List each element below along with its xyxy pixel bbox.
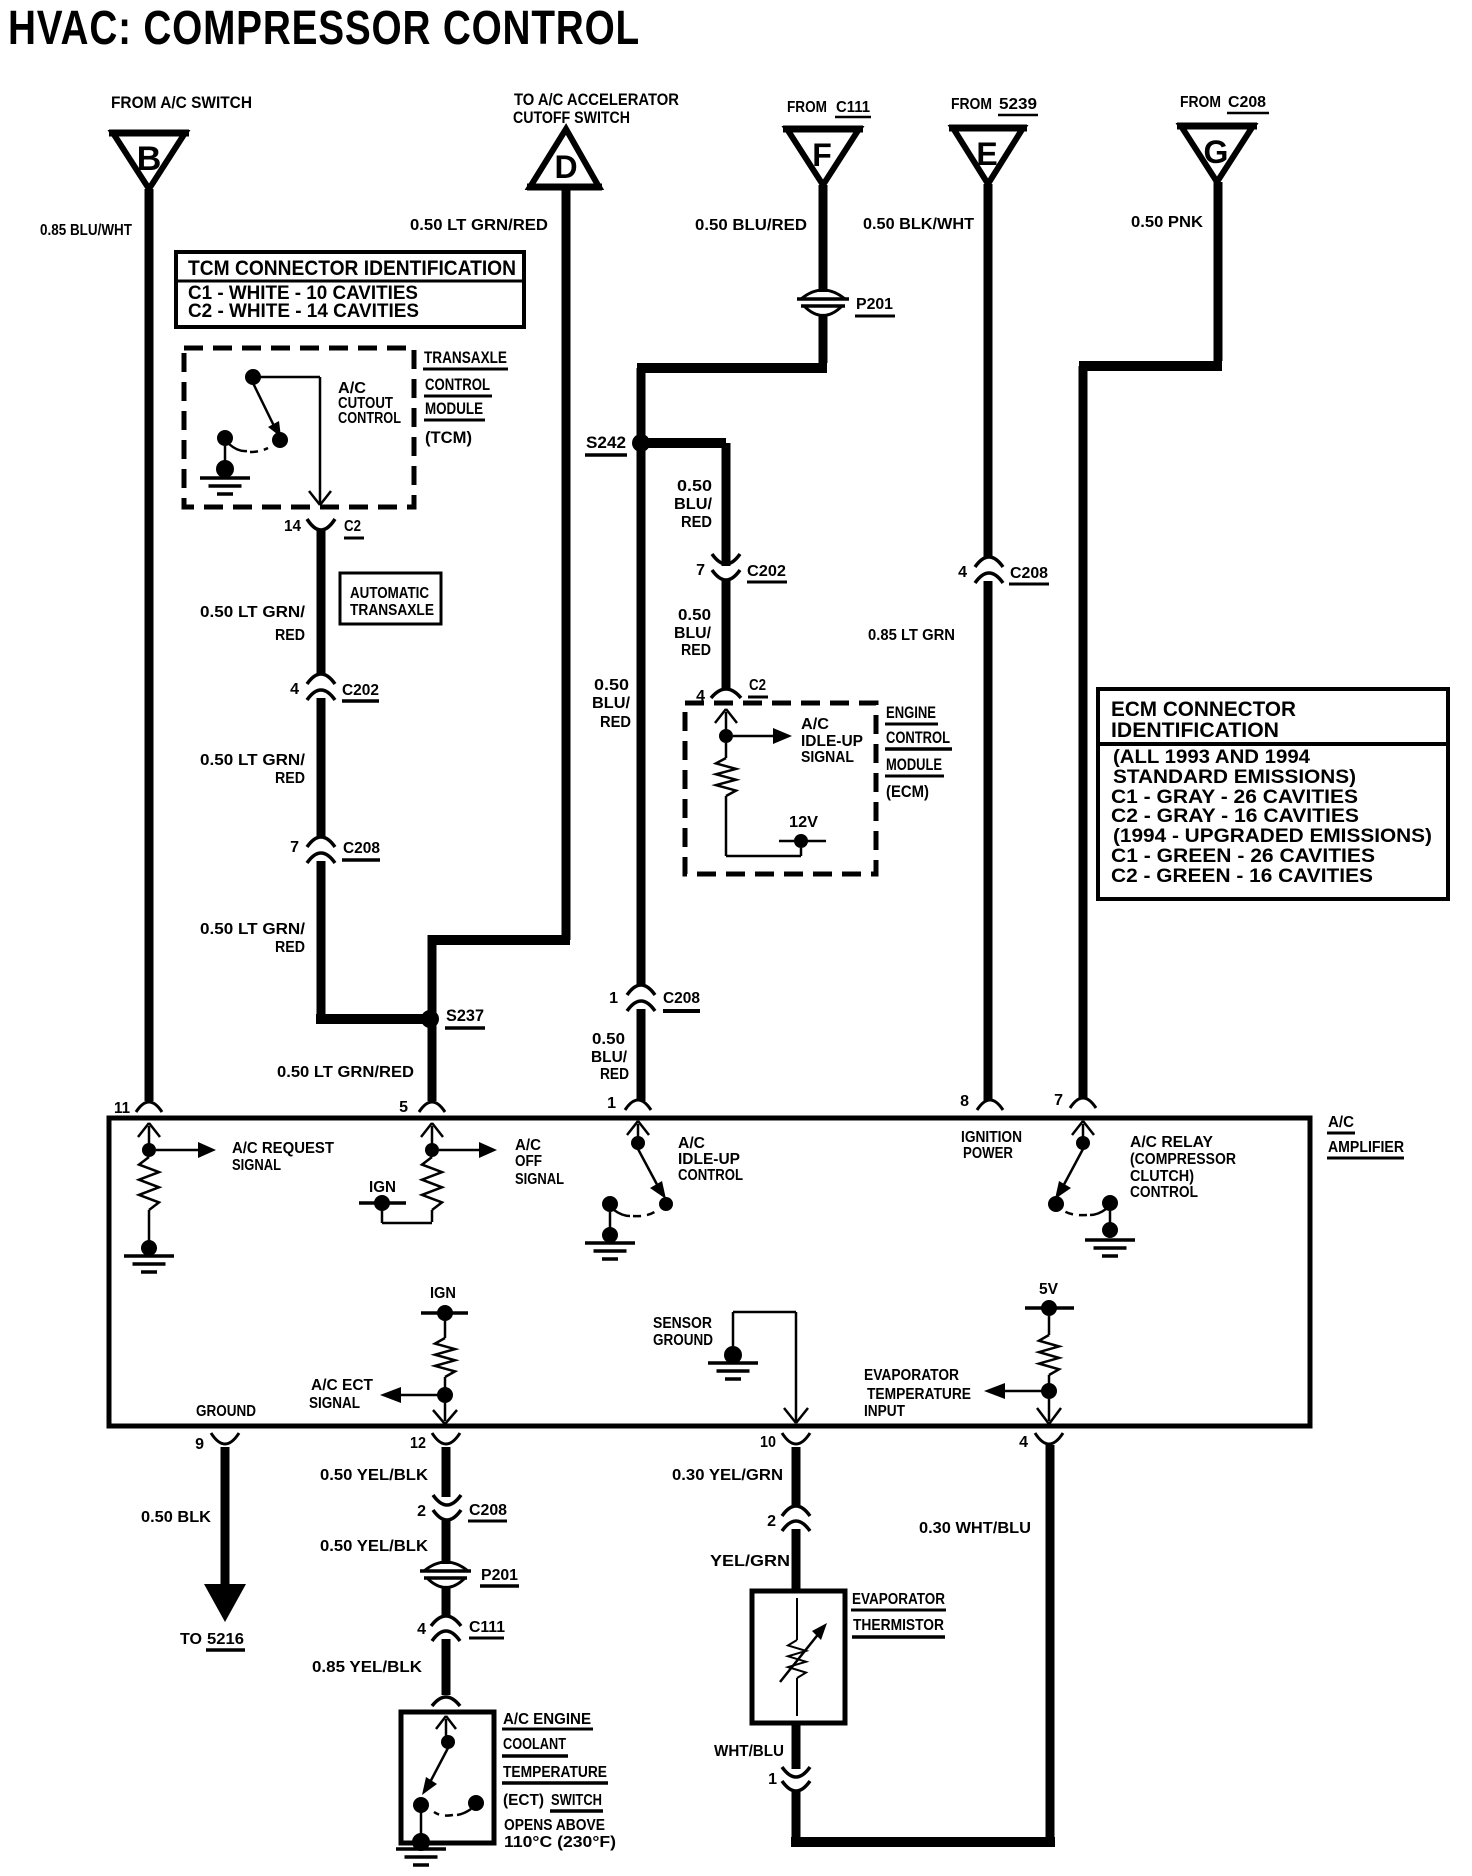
svg-text:A/C: A/C (801, 716, 829, 733)
svg-text:FROM: FROM (787, 99, 827, 116)
svg-text:(COMPRESSOR: (COMPRESSOR (1130, 1151, 1236, 1168)
svg-text:(1994 - UPGRADED EMISSIONS): (1994 - UPGRADED EMISSIONS) (1113, 826, 1432, 847)
pin 11 resistor to ground (139, 1157, 159, 1256)
wire F upper segment (0.50 BLU/RED) (695, 185, 823, 292)
svg-text:GROUND: GROUND (653, 1332, 713, 1349)
A/C off signal arrow (439, 1137, 564, 1188)
label TRANSAXLE CONTROL MODULE (TCM) (423, 348, 508, 447)
ECT switch blade (413, 1748, 448, 1813)
in-line connector C208 pin 1 (center column) (609, 985, 700, 1011)
svg-text:FROM: FROM (951, 96, 992, 113)
svg-text:(ECM): (ECM) (886, 782, 929, 801)
amplifier pin 1 (607, 1095, 651, 1112)
svg-text:OFF: OFF (515, 1153, 542, 1170)
label A/C RELAY (COMPRESSOR CLUTCH) CONTROL (1130, 1134, 1236, 1201)
sensor ground dot (724, 1346, 742, 1364)
svg-text:A/C REQUEST: A/C REQUEST (232, 1140, 334, 1157)
svg-text:C208: C208 (343, 840, 380, 857)
svg-text:A/C: A/C (515, 1137, 541, 1154)
svg-text:TO: TO (180, 1631, 202, 1648)
TCM A/C cutout control dashed box (184, 348, 414, 507)
svg-text:0.50 LT GRN/RED: 0.50 LT GRN/RED (410, 217, 548, 234)
A/C idle-up signal arrow (733, 716, 863, 766)
wire P201 to C111 (0.85 YEL/BLK) (442, 1586, 451, 1616)
svg-text:SWITCH: SWITCH (551, 1792, 602, 1809)
label A/C ENGINE COOLANT TEMPERATURE (ECT) SWITCH (502, 1711, 616, 1851)
wire pin 10 to thermistor connector (0.30 YEL/GRN) (672, 1447, 796, 1506)
pin 11 ground symbol (124, 1256, 174, 1272)
ECM 12V terminal (726, 814, 826, 856)
in-line connector C202 pin 4 (left column) (290, 674, 379, 701)
wire C208 pin1 to amplifier pin 1 (0.50 BLU/RED) (591, 1009, 641, 1101)
svg-text:CONTROL: CONTROL (338, 410, 401, 427)
label A/C AMPLIFIER (1327, 1114, 1404, 1158)
svg-text:ECM CONNECTOR: ECM CONNECTOR (1111, 698, 1296, 721)
svg-text:4: 4 (958, 564, 967, 581)
svg-text:ENGINE: ENGINE (886, 703, 936, 722)
svg-text:RED: RED (275, 770, 305, 787)
wire G to amplifier pin 7 (0.50 PNK) with jog (1079, 182, 1222, 1098)
wire thermistor to pin 1 connector (WHT/BLU) (714, 1721, 796, 1769)
svg-text:AMPLIFIER: AMPLIFIER (1328, 1139, 1404, 1156)
ECT circuit resistor (435, 1338, 455, 1388)
label A/C IDLE-UP CONTROL (678, 1135, 743, 1184)
wire C208 to S237 (0.50 LT GRN/RED) (200, 861, 425, 1019)
svg-text:TRANSAXLE: TRANSAXLE (350, 602, 434, 619)
svg-text:4: 4 (1019, 1434, 1028, 1451)
svg-text:9: 9 (195, 1436, 204, 1453)
svg-text:2: 2 (417, 1503, 426, 1520)
pin 5 entry arrow (421, 1123, 443, 1144)
svg-text:1: 1 (768, 1771, 777, 1788)
svg-text:IGNITION: IGNITION (961, 1129, 1022, 1146)
svg-text:5V: 5V (1039, 1281, 1058, 1298)
svg-text:A/C ENGINE: A/C ENGINE (503, 1711, 591, 1728)
svg-text:C202: C202 (342, 682, 379, 699)
wire pin 12 to C208 (0.50 YEL/BLK) (320, 1447, 446, 1497)
svg-text:TO A/C ACCELERATOR: TO A/C ACCELERATOR (514, 90, 679, 109)
svg-text:C2 - GREEN - 16 CAVITIES: C2 - GREEN - 16 CAVITIES (1111, 866, 1373, 887)
svg-text:(ALL 1993 AND 1994: (ALL 1993 AND 1994 (1113, 747, 1310, 768)
svg-text:CONTROL: CONTROL (425, 375, 490, 394)
in-line connector C111 pin 4 (bottom) (417, 1616, 505, 1641)
svg-text:TRANSAXLE: TRANSAXLE (424, 348, 507, 367)
label GROUND (pin 9) (196, 1403, 256, 1420)
pin 1 switch fixed contact (602, 1196, 656, 1216)
wire pin 9 ground (0.50 BLK) (141, 1447, 225, 1586)
svg-text:(TCM): (TCM) (425, 428, 472, 447)
pin 7 ground symbol (1085, 1240, 1135, 1256)
wire C2 pin14 to C202 (0.50 LT GRN/RED) (200, 530, 321, 675)
svg-text:B: B (137, 140, 162, 178)
amplifier pin 5 (399, 1099, 445, 1116)
svg-text:8: 8 (960, 1093, 969, 1110)
svg-text:0.50 PNK: 0.50 PNK (1131, 214, 1203, 231)
svg-text:12: 12 (410, 1435, 426, 1452)
amplifier pin 9 (195, 1433, 239, 1453)
off-page connector B (from A/C switch) (109, 93, 252, 189)
svg-text:0.85 BLU/WHT: 0.85 BLU/WHT (40, 222, 132, 239)
svg-text:BLU/: BLU/ (592, 695, 631, 712)
svg-text:IDENTIFICATION: IDENTIFICATION (1111, 719, 1279, 742)
svg-text:0.85 LT GRN: 0.85 LT GRN (868, 627, 955, 644)
wire S242 branch to ECM (0.50 BLU/RED) (637, 443, 726, 566)
TCM connector C2 pin 14 (284, 518, 364, 538)
svg-text:TCM CONNECTOR IDENTIFICATION: TCM CONNECTOR IDENTIFICATION (188, 257, 516, 280)
wire to evaporator thermistor (YEL/GRN) (710, 1529, 796, 1593)
wire B to amplifier pin 11 (0.85 BLU/WHT) (40, 189, 149, 1101)
amplifier pin 8 (960, 1093, 1003, 1110)
svg-text:CONTROL: CONTROL (886, 728, 950, 747)
svg-text:C2: C2 (344, 518, 361, 535)
svg-text:C208: C208 (469, 1502, 507, 1519)
svg-text:CONTROL: CONTROL (678, 1167, 743, 1184)
svg-text:RED: RED (275, 939, 305, 956)
svg-text:C202: C202 (747, 563, 786, 580)
svg-text:OPENS ABOVE: OPENS ABOVE (504, 1817, 605, 1834)
pin 1 switch blade (638, 1149, 673, 1211)
svg-text:7: 7 (1054, 1092, 1063, 1109)
wire E upper segment (0.50 BLK/WHT) (863, 184, 988, 557)
svg-text:0.50 LT GRN/: 0.50 LT GRN/ (200, 604, 306, 621)
off-page connector G (from C208) (1177, 94, 1269, 182)
amplifier pin 10 (760, 1433, 810, 1451)
svg-text:A/C ECT: A/C ECT (311, 1377, 373, 1394)
svg-text:C2 - WHITE - 14 CAVITIES: C2 - WHITE - 14 CAVITIES (188, 301, 419, 322)
svg-text:0.50 LT GRN/: 0.50 LT GRN/ (200, 752, 306, 769)
ECM idle-up node dot (719, 729, 733, 743)
svg-text:7: 7 (290, 839, 299, 856)
svg-text:A/C: A/C (678, 1135, 705, 1152)
svg-text:2: 2 (767, 1513, 776, 1530)
svg-text:RED: RED (681, 642, 711, 659)
ECT switch contact to box edge (412, 1812, 430, 1851)
svg-text:C208: C208 (663, 990, 700, 1007)
TCM switch pivot dot (245, 369, 261, 385)
svg-text:1: 1 (607, 1095, 616, 1112)
evaporator thermistor box (752, 1591, 845, 1723)
wire C202 to ECM C2 pin 4 (0.50 BLU/RED) (674, 580, 726, 688)
svg-text:P201: P201 (856, 296, 893, 313)
TCM switch fixed contact (217, 430, 268, 452)
svg-text:STANDARD EMISSIONS): STANDARD EMISSIONS) (1113, 767, 1356, 788)
evaporator circuit resistor (1039, 1335, 1059, 1384)
svg-text:S242: S242 (586, 433, 626, 452)
splice S242 (585, 433, 650, 455)
ECT signal node dot (437, 1387, 453, 1403)
svg-text:0.50: 0.50 (677, 478, 712, 495)
splice S237 (421, 1006, 485, 1028)
wire C111 to ECT switch (0.85 YEL/BLK) (312, 1639, 446, 1695)
svg-text:0.50 YEL/BLK: 0.50 YEL/BLK (320, 1467, 428, 1484)
svg-text:EVAPORATOR: EVAPORATOR (852, 1591, 945, 1608)
pin 5 node dot (425, 1143, 439, 1157)
svg-text:WHT/BLU: WHT/BLU (714, 1743, 784, 1760)
label IGNITION POWER (961, 1129, 1022, 1162)
svg-text:11: 11 (114, 1100, 130, 1117)
svg-text:4: 4 (417, 1621, 426, 1638)
svg-text:1: 1 (609, 990, 618, 1007)
off-page connector F (from C111) (783, 99, 871, 185)
svg-text:IGN: IGN (430, 1285, 456, 1302)
svg-text:SIGNAL: SIGNAL (801, 749, 854, 766)
svg-text:IDLE-UP: IDLE-UP (678, 1151, 740, 1168)
pin 1 entry arrow (627, 1121, 649, 1138)
svg-text:0.30 WHT/BLU: 0.30 WHT/BLU (919, 1520, 1031, 1537)
svg-text:C208: C208 (1010, 565, 1048, 582)
svg-text:S237: S237 (446, 1006, 484, 1025)
svg-text:P201: P201 (481, 1567, 518, 1584)
svg-text:IDLE-UP: IDLE-UP (801, 733, 863, 750)
sensor ground symbol (708, 1363, 758, 1379)
svg-text:INPUT: INPUT (864, 1403, 905, 1420)
label A/C CUTOUT CONTROL (338, 380, 401, 427)
svg-text:MODULE: MODULE (425, 399, 483, 418)
off-page connector D (to A/C accelerator cutoff switch) (513, 90, 679, 187)
pin 7 switch blade (1048, 1149, 1083, 1212)
ECT signal to pin 12 down arrow (433, 1403, 457, 1424)
svg-text:5216: 5216 (207, 1631, 244, 1648)
svg-text:RED: RED (681, 514, 712, 531)
svg-text:AUTOMATIC: AUTOMATIC (350, 585, 429, 602)
svg-text:BLU/: BLU/ (674, 625, 712, 642)
svg-text:CLUTCH): CLUTCH) (1130, 1168, 1194, 1185)
svg-text:D: D (554, 149, 577, 185)
amplifier pin 4 (1019, 1433, 1063, 1451)
pin 7 contact to ground (1102, 1211, 1118, 1238)
thermistor return wire to amplifier pin 4 (0.30 WHT/BLU) (791, 1445, 1055, 1847)
svg-text:5: 5 (399, 1099, 408, 1116)
in-line connector C208 pin 4 (E column) (958, 557, 1049, 584)
evaporator input node dot (1041, 1383, 1057, 1399)
svg-text:C208: C208 (1228, 94, 1266, 111)
svg-text:4: 4 (290, 681, 299, 698)
svg-text:SIGNAL: SIGNAL (515, 1171, 564, 1188)
pin 1 switch pivot dot (631, 1136, 645, 1150)
svg-text:C1 - GREEN - 26 CAVITIES: C1 - GREEN - 26 CAVITIES (1111, 846, 1375, 867)
A/C ECT signal arrow (309, 1377, 438, 1412)
svg-text:G: G (1204, 134, 1229, 170)
ECM pull-up resistor (716, 743, 736, 856)
grommet P201 (F column) (797, 290, 895, 316)
svg-text:RED: RED (600, 1066, 629, 1083)
pin 7 switch fixed contact (1064, 1195, 1118, 1215)
svg-text:C1 - GRAY - 26 CAVITIES: C1 - GRAY - 26 CAVITIES (1111, 787, 1358, 808)
svg-text:0.50: 0.50 (592, 1031, 625, 1048)
in-line connector C208 pin 7 (left column) (290, 837, 380, 863)
svg-text:C111: C111 (469, 1619, 505, 1636)
svg-text:0.50: 0.50 (678, 607, 711, 624)
svg-text:A/C RELAY: A/C RELAY (1130, 1134, 1213, 1151)
svg-text:0.50 BLK: 0.50 BLK (141, 1509, 211, 1526)
wire F lower segment to S242 (637, 314, 827, 443)
title HVAC: COMPRESSOR CONTROL (8, 2, 640, 55)
svg-text:SIGNAL: SIGNAL (309, 1395, 360, 1412)
evaporator input to pin 4 down arrow (1037, 1399, 1061, 1424)
ECT switch entry arrow (436, 1716, 456, 1736)
svg-text:0.85 YEL/BLK: 0.85 YEL/BLK (312, 1659, 422, 1676)
svg-text:YEL/GRN: YEL/GRN (710, 1553, 790, 1570)
svg-text:10: 10 (760, 1434, 776, 1451)
TCM ground symbol (200, 478, 250, 494)
IGN terminal (pin 5 circuit) (359, 1179, 432, 1223)
ECM pin 4 entry up-arrow (715, 709, 737, 730)
TCM switch blade with arrowhead (253, 383, 288, 448)
ECM connector identification box (1098, 689, 1448, 899)
amplifier pin 11 (114, 1100, 162, 1117)
svg-text:E: E (976, 136, 997, 172)
A/C ECT switch box (401, 1712, 494, 1843)
off-page connector E (from S239) (949, 96, 1038, 184)
svg-text:0.50 BLK/WHT: 0.50 BLK/WHT (863, 216, 974, 233)
in-line connector pin 1 (thermistor return) (768, 1767, 810, 1791)
svg-text:0.50 YEL/BLK: 0.50 YEL/BLK (320, 1538, 428, 1555)
ECM dashed box (685, 703, 876, 874)
svg-text:TEMPERATURE: TEMPERATURE (867, 1386, 971, 1403)
evaporator temperature input arrow (864, 1367, 1042, 1420)
svg-text:HVAC: COMPRESSOR CONTROL: HVAC: COMPRESSOR CONTROL (8, 2, 640, 55)
ECT switch pivot dot (441, 1735, 455, 1749)
svg-text:7: 7 (696, 562, 705, 579)
svg-text:C111: C111 (836, 99, 870, 116)
svg-text:EVAPORATOR: EVAPORATOR (864, 1367, 959, 1384)
svg-text:C2: C2 (749, 677, 766, 694)
svg-text:BLU/: BLU/ (591, 1049, 628, 1066)
thermistor element (780, 1598, 827, 1716)
wire E lower segment to amplifier pin 8 (0.85 LT GRN) (868, 581, 988, 1101)
svg-text:12V: 12V (789, 814, 818, 831)
label ENGINE CONTROL MODULE (ECM) (885, 703, 952, 801)
svg-text:0.50: 0.50 (594, 677, 629, 694)
label 0.50 LT GRN/RED below S237 (277, 1064, 414, 1081)
svg-text:110°C (230°F): 110°C (230°F) (504, 1834, 616, 1851)
svg-text:THERMISTOR: THERMISTOR (853, 1617, 944, 1634)
IGN terminal (ECT signal circuit) (421, 1285, 468, 1338)
5V terminal (evaporator input circuit) (1025, 1281, 1074, 1335)
ECT switch ground symbol (396, 1849, 446, 1865)
sensor ground wire to pin 10 (733, 1312, 808, 1423)
svg-text:0.50 LT GRN/: 0.50 LT GRN/ (200, 921, 306, 938)
svg-text:0.50 BLU/RED: 0.50 BLU/RED (695, 217, 807, 234)
label TO 5216 (180, 1631, 245, 1650)
pin 7 entry arrow (1072, 1121, 1094, 1138)
svg-text:14: 14 (284, 518, 301, 535)
wire S242 down to C208 pin 1 (0.50 BLU/RED) (592, 443, 641, 985)
ground feed arrow to S216 (204, 1584, 246, 1622)
svg-text:RED: RED (275, 627, 305, 644)
pin 11 entry arrow (138, 1123, 160, 1144)
in-line connector pin 2 (thermistor) (767, 1506, 810, 1531)
svg-text:COOLANT: COOLANT (503, 1736, 566, 1753)
svg-text:GROUND: GROUND (196, 1403, 256, 1420)
svg-text:IGN: IGN (369, 1179, 396, 1196)
amplifier pin 7 (1054, 1092, 1096, 1109)
svg-text:POWER: POWER (963, 1145, 1013, 1162)
svg-text:SIGNAL: SIGNAL (232, 1157, 281, 1174)
svg-text:TEMPERATURE: TEMPERATURE (503, 1764, 607, 1781)
svg-text:FROM: FROM (1180, 94, 1221, 111)
in-line connector C202 pin 7 (ECM branch) (696, 554, 787, 582)
svg-text:RED: RED (600, 714, 631, 731)
svg-text:0.30 YEL/GRN: 0.30 YEL/GRN (672, 1467, 783, 1484)
svg-text:0.50 LT GRN/RED: 0.50 LT GRN/RED (277, 1064, 414, 1081)
ECM connector C2 pin 4 (696, 677, 768, 705)
TCM connector identification box (176, 252, 524, 327)
wire C202 to C208 (0.50 LT GRN/RED) (200, 698, 321, 837)
svg-text:5239: 5239 (999, 96, 1037, 113)
TCM switch output line with down arrow to C2 pin 14 (259, 377, 331, 505)
svg-text:MODULE: MODULE (886, 755, 942, 774)
label SENSOR GROUND (653, 1315, 713, 1349)
svg-text:F: F (812, 137, 832, 173)
wire D to amplifier pin 5 (0.50 LT GRN/RED) with jog (410, 187, 570, 1101)
pin 5 resistor (422, 1157, 442, 1222)
svg-text:A/C: A/C (1328, 1114, 1354, 1131)
automatic transaxle note box (340, 573, 441, 624)
ECT switch pin connector (432, 1697, 460, 1706)
svg-text:C2 - GRAY - 16 CAVITIES: C2 - GRAY - 16 CAVITIES (1111, 806, 1359, 827)
svg-text:BLU/: BLU/ (674, 496, 713, 513)
wire C208 to P201 (0.50 YEL/BLK) (320, 1520, 446, 1564)
svg-text:FROM A/C SWITCH: FROM A/C SWITCH (111, 93, 252, 112)
svg-text:CONTROL: CONTROL (1130, 1184, 1198, 1201)
pin 7 switch pivot dot (1076, 1136, 1090, 1150)
ECT switch fixed contact (434, 1795, 484, 1816)
svg-text:CUTOFF SWITCH: CUTOFF SWITCH (513, 108, 630, 127)
grommet P201 (bottom) (420, 1562, 519, 1588)
pin 1 ground symbol (585, 1243, 635, 1259)
pin 1 contact to ground (602, 1212, 618, 1243)
svg-text:(ECT): (ECT) (503, 1792, 544, 1809)
A/C amplifier box (109, 1118, 1310, 1426)
svg-text:SENSOR: SENSOR (653, 1315, 712, 1332)
in-line connector C208 pin 2 (bottom) (417, 1495, 507, 1521)
TCM switch contact to ground (216, 446, 234, 478)
pin 11 node dot (142, 1143, 156, 1157)
amplifier pin 12 (410, 1433, 460, 1452)
label EVAPORATOR THERMISTOR (851, 1591, 946, 1637)
A/C request signal arrow (156, 1140, 334, 1174)
